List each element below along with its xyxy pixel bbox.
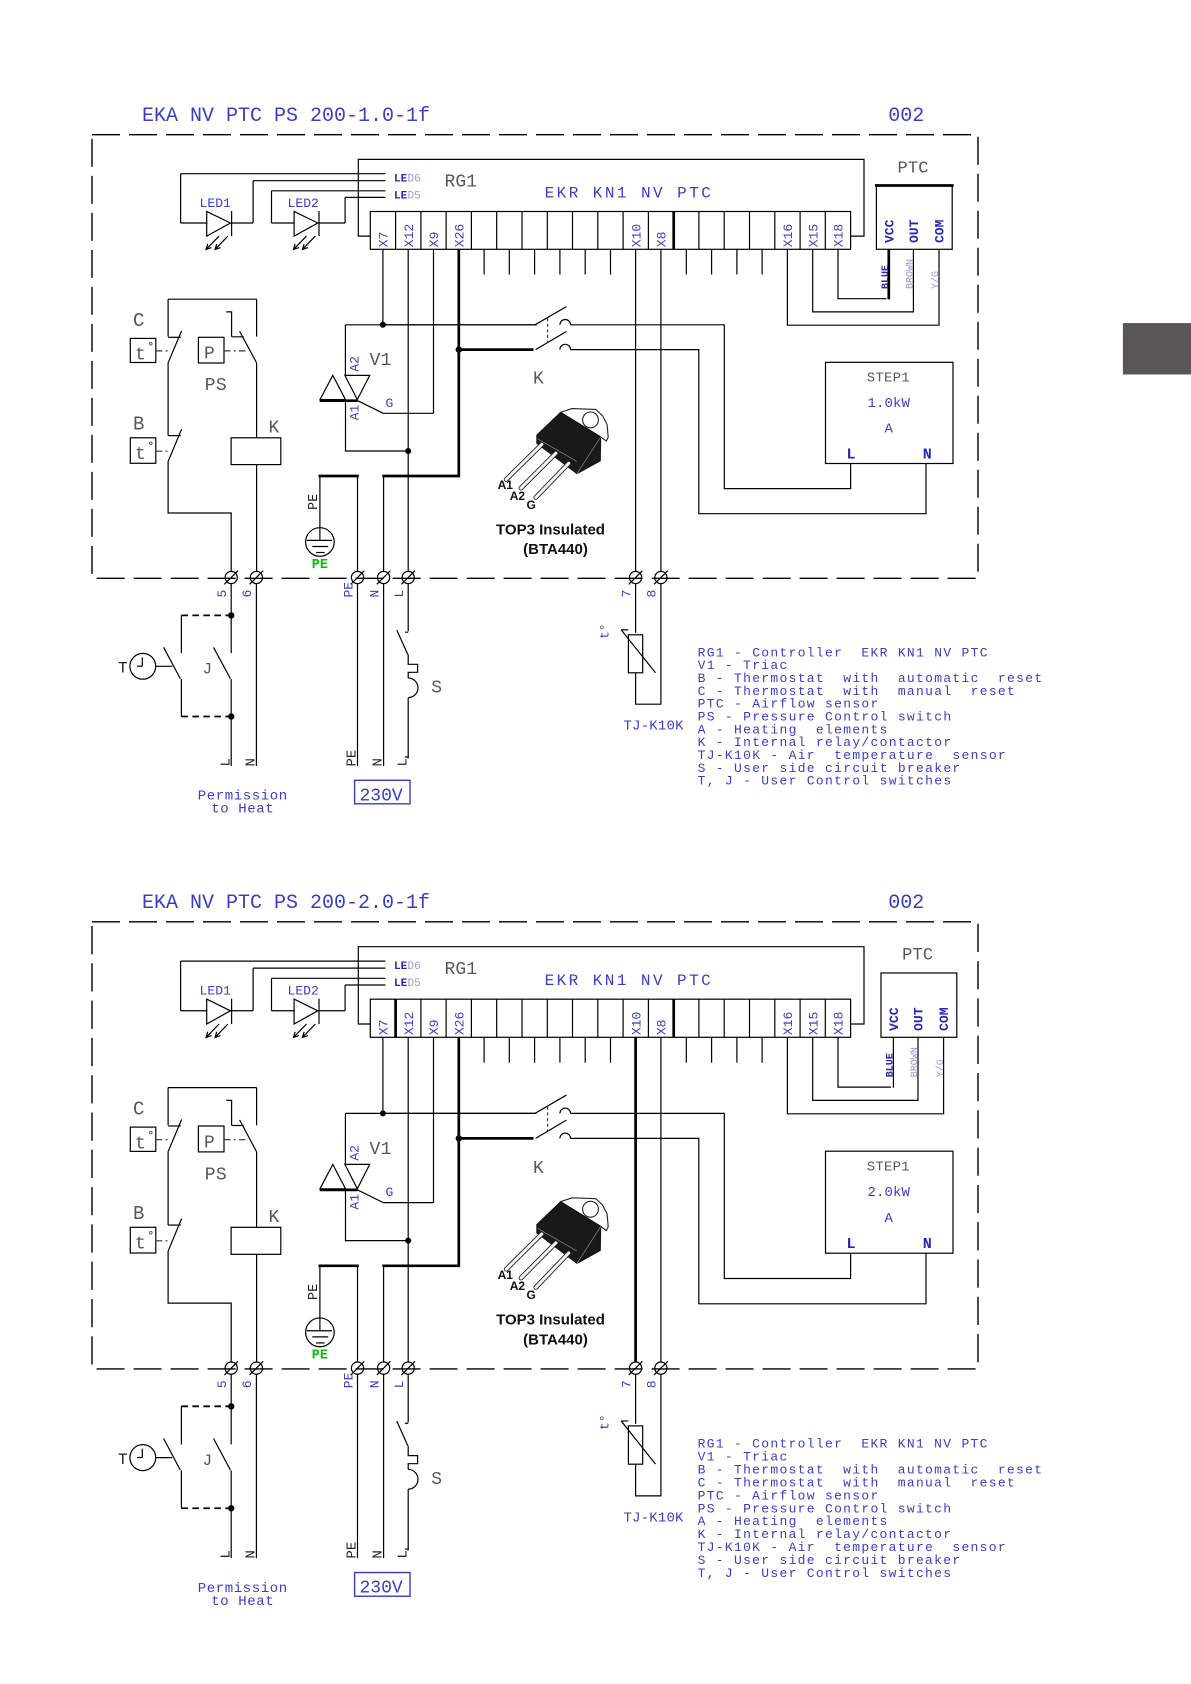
wire PS to relay coil (256, 363, 258, 438)
svg-text:X16: X16 (781, 1012, 796, 1036)
svg-text:EKR KN1 NV PTC: EKR KN1 NV PTC (545, 185, 714, 203)
contact PS lever (240, 1120, 257, 1152)
svg-text:TOP3 Insulated: TOP3 Insulated (496, 521, 605, 538)
wire X7 down to node (382, 249, 384, 324)
wire LED5 anode stub (272, 977, 386, 979)
svg-text:L: L (392, 590, 407, 598)
wire supply N (383, 1374, 385, 1558)
svg-text:X8: X8 (655, 1019, 670, 1035)
svg-text:L: L (846, 1235, 855, 1253)
svg-text:L: L (218, 758, 234, 766)
wire LED6 cathode stub (253, 967, 385, 969)
svg-text:A: A (885, 421, 894, 437)
svg-text:LED2: LED2 (288, 984, 319, 999)
wire K lower to STEP1 N (571, 1138, 927, 1303)
wire K upper to STEP1 L (571, 1113, 851, 1278)
svg-text:BLUE: BLUE (886, 1053, 897, 1077)
link P to contact (224, 350, 247, 352)
svg-text:X9: X9 (427, 232, 442, 248)
svg-text:5: 5 (215, 590, 230, 598)
svg-text:P: P (204, 1133, 215, 1153)
link B to contact (156, 450, 168, 452)
relay coil K box (231, 1227, 281, 1254)
svg-text:BROWN: BROWN (910, 1047, 921, 1077)
svg-text:7: 7 (619, 1380, 634, 1388)
wire LED6 anode stub (181, 173, 386, 175)
contact J lever (214, 1438, 231, 1470)
optional link bottom (181, 1507, 228, 1509)
svg-text:OUT: OUT (907, 219, 922, 243)
svg-text:P: P (204, 345, 215, 365)
junction J top (228, 1403, 234, 1409)
wire rail to PS contact (256, 1088, 258, 1126)
wire permission top rail (168, 1087, 257, 1089)
junction J top (228, 612, 234, 618)
svg-text:LE: LE (394, 174, 408, 186)
wire permission top rail (168, 298, 257, 300)
wire LED6 anode stub (181, 960, 386, 962)
svg-text:X26: X26 (452, 224, 467, 247)
PS fixed contact stub (226, 1100, 243, 1125)
svg-text:EKR KN1 NV PTC: EKR KN1 NV PTC (545, 972, 714, 990)
wire X12 down to terminal L (407, 1037, 409, 1362)
diagram 1: EKA NV PTC PS 200-1.0-1f (92, 105, 1043, 818)
svg-text:D6: D6 (408, 961, 421, 973)
svg-text:J: J (202, 1452, 212, 1470)
contact C lever (168, 1120, 181, 1152)
wire A1 to node (346, 401, 409, 451)
svg-text:t: t (135, 1235, 146, 1255)
wire X18 to PTC VCC (838, 249, 887, 298)
wire X9 down to gate (433, 1037, 435, 1202)
diagram 2: EKA NV PTC PS 200-2.0-1f (92, 892, 1043, 1610)
terminal L (402, 571, 414, 583)
svg-text:G: G (386, 396, 394, 411)
wire J upper (230, 615, 232, 653)
LED1 emission arrows (206, 236, 219, 249)
wire to user L (230, 717, 232, 767)
svg-text:COM: COM (937, 1007, 952, 1031)
svg-text:LED1: LED1 (200, 196, 232, 211)
svg-text:TJ-K10K: TJ-K10K (624, 719, 685, 735)
svg-text:A: A (885, 1211, 894, 1227)
svg-text:X16: X16 (781, 224, 796, 247)
svg-text:C: C (133, 310, 144, 332)
svg-text:N: N (923, 1235, 932, 1253)
svg-text:A1: A1 (348, 1194, 363, 1210)
dashed enclosure border (92, 135, 978, 579)
svg-text:230V: 230V (360, 786, 403, 806)
wire supply PE (357, 1374, 359, 1558)
wire X16 to PTC COM (787, 249, 939, 325)
wire sensor to terminal 8 (636, 583, 661, 704)
thermostat B box (130, 1227, 156, 1253)
contact B seat (168, 435, 181, 437)
svg-text:A2: A2 (510, 1279, 526, 1293)
terminal 6 (250, 1362, 262, 1374)
wire coil to terminal 6 (256, 465, 258, 572)
svg-text:EKA NV PTC PS 200-2.0-1f: EKA NV PTC PS 200-2.0-1f (142, 892, 430, 915)
contact K upper (535, 1095, 566, 1113)
terminal strip of RG1 (370, 212, 850, 250)
svg-text:X15: X15 (806, 1012, 821, 1036)
wire J upper (230, 1406, 232, 1444)
contact C seat (168, 1125, 181, 1127)
wire PS to relay coil (256, 1152, 258, 1227)
svg-text:PE: PE (341, 582, 356, 598)
wire X10 down to terminal 7 (634, 1037, 637, 1362)
svg-text:OUT: OUT (912, 1007, 927, 1031)
LED2 emission arrows (294, 1024, 307, 1037)
thermistor TJ-K10K body (628, 635, 642, 673)
triac V1 symbol (320, 375, 346, 399)
airflow sensor PTC box (876, 186, 952, 250)
wire J lower (230, 1470, 232, 1508)
wire supply L upper (405, 1374, 408, 1423)
wire X26 thick to corner (382, 350, 459, 476)
wire node to K upper contact (383, 1112, 537, 1114)
svg-text:J: J (203, 661, 213, 679)
link B to contact (156, 1240, 168, 1242)
svg-text:RG1: RG1 (445, 173, 478, 193)
terminal strip of RG1 (370, 999, 850, 1037)
svg-text:X7: X7 (377, 232, 392, 248)
unused pin stubs of RG1 (483, 249, 485, 274)
svg-text:D6: D6 (408, 174, 421, 186)
wire node to K upper contact (383, 324, 537, 326)
svg-text:X10: X10 (629, 224, 644, 247)
svg-text:X10: X10 (629, 1011, 644, 1035)
optional link top (181, 614, 228, 616)
terminal N (378, 571, 390, 583)
TOP3 lead A1 (506, 444, 542, 479)
svg-text:L: L (218, 1550, 234, 1558)
wire X9 down to gate (433, 249, 435, 413)
svg-text:t°: t° (598, 623, 613, 639)
wire coil to terminal 6 (256, 1254, 258, 1362)
wire rail to PS contact (256, 299, 258, 336)
svg-text:N: N (371, 1550, 387, 1558)
wire node to A2 (345, 1113, 536, 1164)
junction X26/K node (456, 346, 462, 352)
svg-text:B: B (133, 1203, 144, 1225)
svg-text:002: 002 (888, 892, 924, 915)
svg-text:BLUE: BLUE (881, 265, 892, 289)
junction X12/A1 node (405, 1238, 411, 1244)
wire K upper to STEP1 L (571, 325, 851, 489)
contact T lever (164, 1438, 181, 1470)
svg-text:t: t (135, 1134, 146, 1154)
optional link bottom (181, 716, 228, 718)
junction J bottom (228, 713, 234, 719)
contact K lower (536, 1120, 567, 1138)
svg-text:X8: X8 (655, 232, 670, 248)
junction X12/A1 node (405, 448, 411, 454)
svg-text:T: T (118, 660, 128, 678)
svg-text:X12: X12 (402, 1012, 417, 1036)
circuit breaker S (397, 1421, 408, 1446)
svg-text:(BTA440): (BTA440) (523, 1331, 588, 1348)
terminal PE (351, 571, 363, 583)
terminal 8 (655, 571, 667, 583)
terminal L (402, 1362, 414, 1374)
gate wire to X9 (358, 1190, 434, 1203)
svg-text:N: N (367, 1380, 382, 1388)
TOP3 lead A2 (521, 1243, 556, 1278)
circuit breaker S (397, 630, 408, 654)
svg-text:K: K (533, 370, 544, 390)
wire T branch lower (180, 679, 182, 717)
wire corner to terminal N (383, 476, 385, 572)
terminal PE (351, 1362, 363, 1374)
svg-text:PE: PE (345, 1542, 361, 1559)
supply box 230V (355, 780, 410, 804)
terminal 5 (225, 571, 237, 583)
svg-text:G: G (385, 1185, 393, 1200)
wire X16 to PTC COM (787, 1037, 943, 1114)
LED2 emission arrows (294, 236, 307, 249)
svg-text:002: 002 (888, 105, 924, 128)
terminal 7 (630, 571, 642, 583)
svg-text:X18: X18 (832, 1012, 847, 1036)
contact J lever (214, 647, 231, 678)
wire K lower to STEP1 N (571, 350, 927, 514)
heating element STEP1 box (826, 1151, 954, 1253)
svg-text:N: N (244, 758, 260, 766)
svg-text:TOP3 Insulated: TOP3 Insulated (496, 1312, 605, 1329)
wire C to B (167, 362, 169, 435)
contact C lever (168, 331, 181, 362)
wire to user L (230, 1508, 232, 1558)
thermostat C box (130, 338, 156, 362)
wire X15 to PTC OUT (813, 249, 914, 312)
svg-text:PE: PE (312, 1348, 328, 1363)
wire terminal 5 down (230, 1374, 232, 1406)
wire terminal 5 down (230, 583, 232, 615)
wire terminal 6 to user N (255, 583, 257, 766)
triac V1 symbol (320, 1164, 346, 1188)
gate wire to X9 (358, 401, 434, 414)
time switch T clock (130, 653, 156, 679)
contact B seat (168, 1224, 181, 1226)
controller U RG1 outline (358, 947, 864, 1024)
svg-text:2.0kW: 2.0kW (867, 1185, 910, 1201)
wire X8 down to terminal 8 (660, 249, 662, 572)
PS fixed contact stub (226, 312, 243, 337)
heating element STEP1 box (826, 362, 954, 463)
svg-text:LE: LE (394, 191, 408, 203)
wire node to K lower contact (459, 1137, 534, 1140)
TOP3 package body (537, 1202, 601, 1264)
wire A1 to node (346, 1190, 409, 1241)
contact C seat (168, 336, 181, 338)
svg-text:VCC: VCC (882, 219, 897, 243)
contact K upper (535, 307, 566, 325)
svg-text:N: N (371, 758, 387, 766)
contact PS lever (240, 331, 257, 363)
contact B lever (168, 1219, 181, 1251)
controller U RG1 outline (358, 159, 864, 236)
svg-text:PS: PS (205, 1165, 227, 1185)
svg-text:t: t (135, 346, 146, 366)
contact K mechanical link (547, 318, 549, 342)
thermistor TJ-K10K body (628, 1426, 642, 1464)
svg-text:T, J - User Control switches: T, J - User Control switches (698, 1566, 953, 1581)
pressure sensor P box (198, 337, 224, 363)
svg-text:C: C (133, 1099, 144, 1121)
wire rail to C contact (167, 1088, 169, 1126)
svg-text:S: S (431, 1470, 442, 1490)
svg-text:K: K (533, 1159, 544, 1179)
LED LED1 (180, 174, 182, 223)
TOP3 package body (537, 412, 601, 473)
wire rail to C contact (167, 299, 169, 336)
wire node to A2 (345, 325, 536, 376)
svg-text:1.0kW: 1.0kW (868, 396, 911, 412)
svg-text:Y/G: Y/G (935, 1059, 947, 1077)
contact B lever (168, 429, 181, 461)
wire terminal 6 to user N (255, 1374, 257, 1558)
junction X26/K node (456, 1135, 462, 1141)
wire X10 down to terminal 7 (635, 249, 637, 572)
svg-text:BROWN: BROWN (906, 259, 917, 289)
wire PE bus (319, 475, 359, 478)
svg-text:PS: PS (205, 376, 227, 396)
TOP3 lead G (536, 463, 569, 497)
wire X7 down to node (382, 1037, 384, 1113)
svg-text:S: S (431, 678, 442, 698)
contact K mechanical link (547, 1107, 549, 1132)
TOP3 lead A2 (521, 453, 556, 488)
wire LED5 cathode stub (345, 984, 385, 986)
svg-text:t°: t° (598, 1414, 613, 1430)
TOP3 package tab (561, 1198, 609, 1231)
svg-text:230V: 230V (360, 1579, 403, 1599)
wire X18 to PTC VCC (838, 1037, 891, 1087)
wire terminal 7 to sensor (635, 1374, 637, 1424)
svg-text:N: N (367, 590, 382, 598)
svg-text:(BTA440): (BTA440) (523, 541, 588, 558)
wire C to B (167, 1151, 169, 1225)
svg-text:V1: V1 (370, 1140, 392, 1160)
svg-text:7: 7 (619, 590, 634, 598)
terminal 8 (655, 1362, 667, 1374)
link C to contact (156, 350, 168, 352)
wire T branch upper (180, 615, 182, 653)
svg-text:N: N (923, 446, 932, 463)
terminal 6 (250, 571, 262, 583)
link C to contact (156, 1139, 168, 1141)
svg-text:STEP1: STEP1 (867, 370, 910, 386)
svg-text:RG1: RG1 (445, 960, 478, 980)
svg-text:COM: COM (933, 219, 948, 243)
svg-text:L: L (392, 1380, 407, 1388)
svg-text:L: L (395, 1550, 411, 1558)
svg-text:L: L (395, 758, 411, 766)
svg-text:X7: X7 (377, 1019, 392, 1035)
terminal N (378, 1362, 390, 1374)
svg-text:6: 6 (240, 1380, 255, 1388)
svg-text:to Heat: to Heat (211, 1594, 274, 1610)
svg-text:Y/G: Y/G (930, 271, 942, 289)
svg-text:L: L (847, 446, 856, 463)
LED LED2 (271, 191, 273, 223)
wire T branch lower (180, 1470, 182, 1508)
terminal 5 (225, 1362, 237, 1374)
wire supply L upper (405, 583, 408, 632)
contact T lever (164, 647, 181, 678)
wire PE bus (319, 1264, 359, 1267)
svg-text:X18: X18 (832, 224, 847, 247)
wire J lower (230, 679, 232, 717)
junction X7/V1/K node (380, 322, 386, 328)
scan artifact gray block at right margin (1123, 323, 1191, 374)
svg-text:to Heat: to Heat (211, 802, 274, 818)
pressure sensor P box (198, 1126, 224, 1152)
LED1 emission arrows (206, 1024, 219, 1037)
svg-text:A1: A1 (348, 404, 363, 420)
thermostat B box (130, 438, 156, 464)
wire B to terminal 5 (168, 461, 231, 572)
svg-text:8: 8 (645, 1380, 660, 1388)
svg-text:N: N (244, 1550, 260, 1558)
svg-text:D5: D5 (408, 978, 421, 990)
svg-text:A2: A2 (348, 1145, 363, 1161)
svg-text:PTC: PTC (898, 159, 929, 178)
wire X12 down to terminal L (407, 249, 409, 572)
svg-text:B: B (133, 414, 144, 436)
wire supply N (383, 583, 385, 766)
wire corner to terminal N (383, 1266, 385, 1363)
LED LED1 (180, 961, 182, 1011)
thermostat C box (130, 1127, 156, 1151)
svg-text:V1: V1 (370, 351, 392, 371)
svg-text:PE: PE (345, 750, 361, 767)
supply box 230V (355, 1573, 410, 1597)
svg-text:K: K (269, 1208, 280, 1228)
optional link top (181, 1405, 228, 1407)
wire X8 down to terminal 8 (660, 1037, 662, 1362)
svg-text:LED2: LED2 (288, 196, 319, 211)
link clock to lever (155, 665, 172, 667)
svg-text:G: G (527, 1288, 536, 1302)
wire sensor to terminal 8 (636, 1374, 661, 1496)
svg-text:T: T (118, 1451, 128, 1469)
wire X15 to PTC OUT (813, 1037, 918, 1100)
link P to contact (224, 1139, 247, 1141)
svg-text:PE: PE (341, 1372, 356, 1388)
svg-text:G: G (527, 498, 536, 512)
relay coil K box (231, 438, 281, 465)
junction X7/V1/K node (380, 1110, 386, 1116)
wire PTC VCC drop (892, 1037, 894, 1087)
svg-text:K: K (269, 418, 280, 438)
airflow sensor PTC box (881, 973, 957, 1037)
LED LED2 (271, 978, 273, 1010)
svg-text:LE: LE (394, 978, 408, 990)
wire X26 thick to node K (457, 1037, 460, 1138)
TOP3 lead A1 (506, 1234, 542, 1269)
svg-text:5: 5 (215, 1380, 230, 1388)
wire LED5 anode stub (272, 190, 386, 192)
svg-text:LED1: LED1 (199, 984, 231, 999)
svg-text:PTC: PTC (902, 947, 933, 966)
svg-text:VCC: VCC (887, 1007, 902, 1031)
svg-text:A2: A2 (348, 356, 363, 372)
svg-text:TJ-K10K: TJ-K10K (624, 1510, 685, 1526)
svg-text:t: t (135, 445, 146, 465)
terminal 7 (630, 1362, 642, 1374)
